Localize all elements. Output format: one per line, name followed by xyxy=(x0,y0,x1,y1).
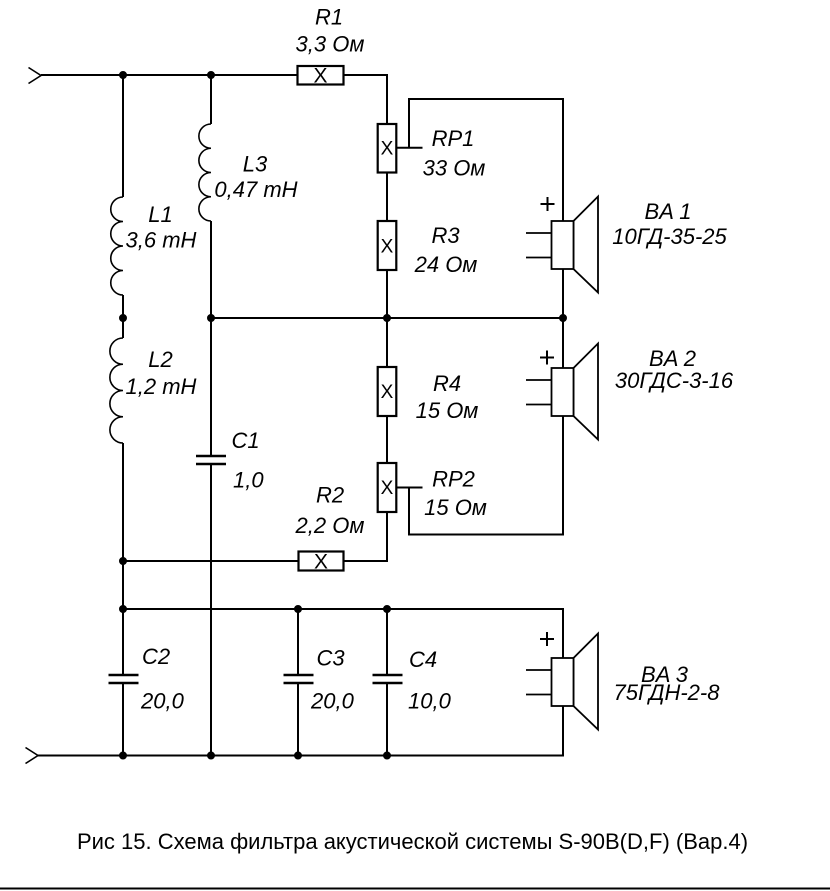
loudspeaker BA1 xyxy=(526,197,598,293)
svg-text:X: X xyxy=(381,382,394,403)
svg-text:1,2 mH: 1,2 mH xyxy=(126,374,197,399)
svg-text:L3: L3 xyxy=(243,152,268,177)
svg-text:L1: L1 xyxy=(148,202,172,227)
svg-text:C4: C4 xyxy=(409,647,437,672)
node left column at mid bus xyxy=(120,315,126,321)
svg-text:15 Ом: 15 Ом xyxy=(416,398,479,423)
resistor R1 xyxy=(298,66,344,85)
wire fourth column C4 lower xyxy=(386,684,388,756)
loudspeaker BA3 xyxy=(526,632,598,730)
capacitor C1 xyxy=(196,455,226,458)
node third column bottom xyxy=(295,753,301,759)
inductor L1 xyxy=(111,197,123,295)
svg-text:24 Ом: 24 Ом xyxy=(414,252,478,277)
svg-text:RP1: RP1 xyxy=(432,126,475,151)
svg-text:3,3 Ом: 3,3 Ом xyxy=(296,32,365,57)
wire speaker3 feed down xyxy=(562,608,564,658)
wire speaker2 lower feed xyxy=(562,416,564,536)
wire mid bus to R4 xyxy=(386,318,388,367)
node second column bottom xyxy=(208,753,214,759)
svg-text:10ГД-35-25: 10ГД-35-25 xyxy=(612,224,727,249)
svg-text:33 Ом: 33 Ом xyxy=(423,156,486,181)
wire RP2 tap line y=534.5 xyxy=(408,534,564,536)
wire left column between L1 and L2 xyxy=(122,295,124,338)
svg-text:C2: C2 xyxy=(142,644,170,669)
node low bus x=298 xyxy=(295,606,301,612)
inductor L3 xyxy=(199,124,211,221)
wire left column x=123 upper xyxy=(122,75,124,197)
wire RP2 tap riser down xyxy=(408,488,410,536)
svg-text:C3: C3 xyxy=(317,646,346,671)
svg-text:20,0: 20,0 xyxy=(310,689,355,714)
svg-text:RP2: RP2 xyxy=(432,467,475,492)
node second column at mid bus xyxy=(208,315,214,321)
svg-text:Рис 15. Схема фильтра акустиче: Рис 15. Схема фильтра акустической систе… xyxy=(77,829,748,854)
page bottom rule xyxy=(0,888,830,890)
node mid bus x=387 xyxy=(384,315,390,321)
input terminal bottom xyxy=(26,748,39,764)
wire left column L2 to C2 xyxy=(122,443,124,674)
svg-text:0,47 mH: 0,47 mH xyxy=(214,177,297,202)
wire second column x=211 upper xyxy=(210,75,212,124)
wire corner down to RP1 xyxy=(386,74,388,124)
wire speaker1 feed down xyxy=(562,98,564,318)
node fourth column bottom xyxy=(384,753,390,759)
resistor R3 xyxy=(378,221,397,270)
node at x=211 top xyxy=(208,72,214,78)
wire third column C3 upper xyxy=(297,609,299,674)
loudspeaker BA2 xyxy=(526,344,598,440)
svg-text:20,0: 20,0 xyxy=(140,689,185,714)
potentiometer RP2 xyxy=(378,463,397,512)
capacitor C3 xyxy=(284,674,314,677)
node left column at R2 line xyxy=(120,558,126,564)
wire speaker3 to bottom bus xyxy=(562,706,564,757)
svg-text:30ГДС-3-16: 30ГДС-3-16 xyxy=(615,368,734,393)
wire third column C3 lower xyxy=(297,684,299,756)
wire mid bus y=318 xyxy=(211,317,563,319)
svg-text:X: X xyxy=(314,551,328,574)
wire R3 to mid bus xyxy=(386,270,388,318)
wire low bus y=609 xyxy=(123,608,563,610)
svg-text:L2: L2 xyxy=(148,347,172,372)
wire speaker2 top feed xyxy=(562,318,564,368)
svg-text:BA 1: BA 1 xyxy=(645,199,692,224)
svg-text:R1: R1 xyxy=(315,5,343,30)
svg-text:R3: R3 xyxy=(431,223,460,248)
svg-text:2,2 Ом: 2,2 Ом xyxy=(295,513,365,538)
wire bottom bus y=755.5 xyxy=(38,755,564,757)
potentiometer RP1 xyxy=(378,124,397,173)
resistor R4 xyxy=(378,367,397,416)
inductor L2 xyxy=(110,338,123,443)
svg-text:X: X xyxy=(381,478,394,499)
node left column at low bus xyxy=(120,606,126,612)
svg-text:C1: C1 xyxy=(232,428,260,453)
node mid bus x=563 xyxy=(560,315,566,321)
resistor R2 xyxy=(299,552,344,571)
svg-text:10,0: 10,0 xyxy=(408,689,452,714)
svg-text:75ГДН-2-8: 75ГДН-2-8 xyxy=(614,680,721,705)
svg-text:1,0: 1,0 xyxy=(233,468,264,493)
wire R1 to corner xyxy=(344,74,389,76)
wire RP2 down to R2 line xyxy=(386,512,388,562)
wire RP1 tap stub xyxy=(396,147,422,149)
svg-text:X: X xyxy=(381,139,394,160)
input terminal top xyxy=(29,68,42,84)
wire RP1 tap line y=99 xyxy=(408,98,564,100)
svg-text:15 Ом: 15 Ом xyxy=(424,495,487,520)
svg-text:3,6 mH: 3,6 mH xyxy=(126,228,197,253)
wire RP1 tap riser xyxy=(408,98,410,148)
node left column bottom xyxy=(120,753,126,759)
wire RP1 to R3 xyxy=(386,173,388,222)
wire R4 to RP2 xyxy=(386,416,388,463)
wire R2 line left part y=561 xyxy=(123,560,299,562)
wire RP2 tap stub xyxy=(396,487,422,489)
svg-text:X: X xyxy=(381,237,394,258)
wire R2 line right part xyxy=(344,560,389,562)
wire second column C1 to bottom xyxy=(210,465,212,756)
svg-text:R4: R4 xyxy=(433,371,461,396)
wire fourth column C4 upper xyxy=(386,609,388,674)
node low bus x=387 xyxy=(384,606,390,612)
svg-text:X: X xyxy=(313,65,327,88)
wire top bus y=75 from input to R1 xyxy=(41,74,298,76)
node at x=123 top xyxy=(120,72,126,78)
wire second column L3 to C1 xyxy=(210,221,212,455)
capacitor C2 xyxy=(109,674,139,677)
svg-text:R2: R2 xyxy=(316,483,344,508)
capacitor C4 xyxy=(373,674,403,677)
wire left column C2 to bottom xyxy=(122,684,124,756)
